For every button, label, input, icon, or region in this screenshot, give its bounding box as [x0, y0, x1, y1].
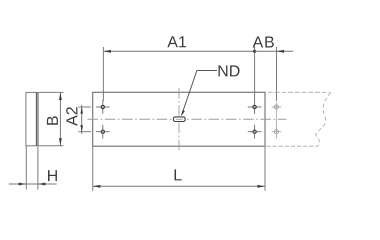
dimension B extension lines [39, 92, 64, 145]
dimension AB line with outside arrow [255, 50, 294, 53]
label A2 (rotated) [66, 107, 77, 126]
dimension A1 extension line right [254, 47, 256, 101]
side view plate outline [26, 92, 38, 145]
dimension AB extension line right [276, 47, 278, 101]
phantom hole bottom [272, 130, 281, 134]
label H [48, 170, 57, 181]
slot ND [174, 117, 186, 122]
dimension A1 extension line left [102, 47, 104, 101]
dimension A2 line with arrows [80, 105, 83, 134]
label L [175, 169, 182, 180]
phantom hole top [272, 105, 281, 109]
vertical centerline through slot [178, 88, 180, 151]
dimension L line with arrows [93, 185, 265, 188]
leader line ND [181, 71, 217, 117]
hole bottom-left [96, 125, 110, 139]
label AB [253, 37, 274, 48]
hole bottom-right [248, 125, 262, 139]
dimension H extension lines [26, 146, 38, 189]
label B (rotated) [47, 116, 58, 125]
break line [316, 92, 331, 146]
dimension H line with outside arrows [9, 183, 57, 186]
dimension A1 line with arrow and dot [103, 50, 256, 53]
horizontal centerline [88, 118, 287, 120]
phantom bottom edge line [267, 145, 318, 147]
dimension L extension lines [93, 147, 265, 191]
phantom top edge line [268, 91, 329, 93]
label ND [219, 65, 240, 76]
phantom hole column centerline [275, 102, 277, 138]
top view plate outline [93, 92, 265, 146]
hole top-left [96, 100, 110, 114]
label A1 [167, 36, 186, 47]
dimension A2 extension lines [78, 107, 91, 132]
hole top-right [248, 100, 262, 114]
dimension B line with arrows [59, 92, 62, 145]
